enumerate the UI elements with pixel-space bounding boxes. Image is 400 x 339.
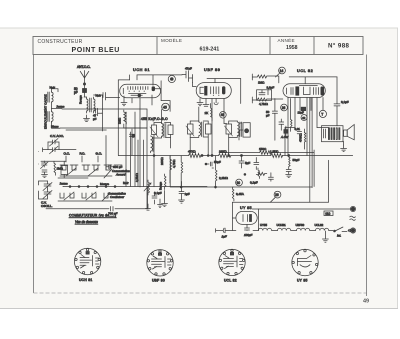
resistor 2.2M vertical [216,156,218,184]
svg-text:1K: 1K [205,111,209,115]
svg-text:0,1µF: 0,1µF [250,181,258,185]
switch bank oscillateur [58,192,112,201]
cadre coil 2 [48,111,53,122]
svg-text:1µF: 1µF [185,192,190,196]
vertical 290.6 resistor [291,99,292,132]
svg-text:50pF: 50pF [214,160,221,164]
svg-text:Vue de dessous: Vue de dessous [75,220,98,224]
tube UCH81 envelope [120,84,161,97]
socket UBF80 [147,250,173,276]
resistor 470k vertical [304,129,305,149]
svg-text:Accord: Accord [115,173,126,177]
cluster caps bottom left of mid [146,191,163,210]
MF2 transformer [186,107,211,156]
wire antenna cap to tube1 [102,93,120,101]
svg-text:49: 49 [363,299,369,305]
circle 42 [301,115,307,121]
svg-text:UCH81: UCH81 [277,223,287,227]
svg-text:UY 85: UY 85 [240,206,252,210]
svg-text:Oscillateur: Oscillateur [110,195,125,199]
tube UBF89 envelope [196,83,231,99]
svg-text:UBF 80: UBF 80 [152,279,165,283]
output transformer [322,126,344,142]
resistor 20k vertical [170,156,172,183]
svg-text:UCH 81: UCH 81 [133,68,150,72]
wire jaune to box [62,108,147,110]
mid cluster trimmer [41,161,49,169]
mid cluster cap [42,170,47,175]
svg-text:2,2MΩ: 2,2MΩ [219,176,229,180]
box around UCH81 [118,80,129,156]
cap 281 [279,119,284,130]
resistor on rail 3 [271,154,283,158]
oscillator rail [58,177,88,179]
wire antenna right [94,95,103,131]
voltage box 110 [324,211,333,216]
uy85 left wire [232,202,236,230]
resistor below UCH81 [118,110,127,128]
bottom commutateur wire with 700pF [46,187,148,209]
svg-text:5µF: 5µF [245,161,250,165]
svg-text:Jaune: Jaune [60,182,69,186]
svg-text:455 Kc|P.O-G.O: 455 Kc|P.O-G.O [141,117,168,121]
svg-text:Jaune: Jaune [56,105,65,109]
svg-text:14: 14 [280,69,284,73]
resistor on rail 2 [219,154,232,158]
svg-text:UCL82: UCL82 [315,223,324,227]
circle 46 [220,112,227,119]
svg-text:3,9pF: 3,9pF [267,86,275,90]
tube UCL82 envelope [283,84,325,98]
dark trimmer square [284,130,288,134]
svg-text:OSCILL.: OSCILL. [41,204,53,208]
svg-text:T: T [321,112,323,116]
svg-text:N° 988: N° 988 [328,43,350,50]
rail 188 [232,186,234,188]
svg-text:0,01: 0,01 [295,127,301,131]
resistor row right of UBF89 [252,74,278,85]
circle 26a [281,104,288,111]
dual vertical long [310,98,312,203]
test point circle top [168,75,175,82]
terminal 2 [351,229,354,232]
svg-text:ANT.O.C.: ANT.O.C. [77,65,91,69]
circle 14 [279,67,286,74]
cap 1uF 450 [179,192,184,194]
ground under resistor2 [162,204,168,207]
svg-text:1MΩ: 1MΩ [258,81,265,85]
svg-text:1MΩ: 1MΩ [57,167,64,171]
antenna coupling coil [84,97,95,118]
svg-text:A.Ouf: A.Ouf [280,135,289,139]
cap top 47pF [182,71,193,82]
svg-text:P.O.: P.O. [80,152,86,156]
vertical 314 [313,150,315,187]
box under UBF89 [207,79,241,104]
svg-text:pF: pF [93,117,97,121]
resistor row 2 right of UBF89 [252,97,282,106]
dots and caps near output [244,174,246,176]
cadre wires [52,89,59,92]
mid rail 2 [62,186,64,188]
svg-text:150Ω: 150Ω [259,147,267,151]
bottom wire with cap 1uF [216,228,233,233]
svg-text:UCL 82: UCL 82 [297,69,313,73]
svg-text:ENROULEMENT CADRE: ENROULEMENT CADRE [43,94,47,129]
circle 101 [236,179,243,186]
svg-text:G.O.: G.O. [96,152,103,156]
resistor 470 vertical [258,168,260,179]
svg-text:0,1µF: 0,1µF [154,191,162,195]
CV OSCILL trimmers [39,181,53,199]
phono box with dot [243,123,250,137]
top rail to UCL82 [289,77,337,84]
cap x132 [129,129,134,156]
svg-text:Rouge: Rouge [79,95,83,104]
rail 209 to terminal [252,208,351,210]
svg-text:C.V. ACC.: C.V. ACC. [50,134,64,138]
harness verticals [126,112,144,187]
box vertical tube1 top [129,75,131,80]
node dots extra [153,155,155,157]
vertical 215 to rail [215,187,217,189]
svg-text:20KΩ: 20KΩ [160,157,164,165]
svg-text:POINT BLEU: POINT BLEU [72,47,120,54]
svg-text:MODÈLE: MODÈLE [161,37,182,43]
node dots rail1 [201,155,203,157]
vertical 274.9 with cap [272,99,277,141]
svg-text:22KΩ: 22KΩ [219,150,227,154]
oscillator coil [151,136,153,153]
page bottom edge [0,308,398,310]
cap 47pF to ground [94,108,103,116]
svg-text:Blanc: Blanc [51,124,59,128]
socket UCL82 [219,249,245,275]
svg-text:47KΩ: 47KΩ [188,150,196,154]
mid cluster box [61,166,68,175]
svg-text:10: 10 [237,181,241,185]
svg-text:1MΩ: 1MΩ [118,117,122,124]
MF1 transformer [150,110,173,187]
svg-text:UCH 81: UCH 81 [79,278,93,282]
contacts row 2 [69,186,116,188]
band stubs [66,156,98,162]
svg-text:12pF: 12pF [298,111,305,115]
circle 14 leader [276,73,280,77]
tube UBF89 pins and grounds [197,99,203,106]
circle 45 [162,103,170,111]
tube UCH81 cathode ground [121,96,127,106]
volume pot [135,172,151,195]
cap box 3900pF [257,86,275,101]
heater loop left vertical [257,209,259,231]
resistor 0.45A vertical [232,187,234,201]
resistor 2 right of pot [165,174,167,190]
svg-text:0,5MΩ: 0,5MΩ [135,172,139,182]
svg-text:pF: pF [266,113,270,117]
mid cluster resistor 1M [54,161,56,175]
svg-text:UBF 89: UBF 89 [204,68,220,72]
svg-text:UY 85: UY 85 [297,279,308,283]
svg-text:UCL 82: UCL 82 [224,279,237,283]
ground antenna coil [84,118,90,122]
svg-text:47pF: 47pF [185,67,192,71]
switch bank accord [60,136,122,179]
resistor 4.7k vertical [181,156,183,187]
ground speaker [341,145,347,152]
CV ACC trimmers [43,139,77,154]
antenna ANT O.C. [80,71,89,98]
svg-text:Rouge: Rouge [159,181,163,190]
svg-text:UBF80: UBF80 [296,223,305,227]
ground heater [322,231,328,242]
cap 50pF mid [205,162,214,168]
wires misc verticals middle [102,109,147,209]
MF3 transformer [225,121,242,156]
speaker cap [334,77,343,106]
svg-text:Mauve: Mauve [100,182,109,186]
mid cluster ground [42,175,48,178]
svg-text:Noir: Noir [96,94,102,98]
cap below uy85 [245,224,250,230]
svg-text:1µF: 1µF [222,235,227,239]
tube UCH81 pins [132,95,152,123]
svg-text:0,45A: 0,45A [236,192,244,196]
svg-text:ANNÉE: ANNÉE [278,37,295,43]
svg-text:110: 110 [325,212,330,216]
cadre coil 1 [48,92,53,103]
wire blanc long [60,127,147,129]
schematic frame [34,55,367,297]
svg-text:0,1µF: 0,1µF [341,100,349,104]
cadre box top [66,129,106,131]
upper B+ line [220,152,314,154]
svg-text:4,7MΩ: 4,7MΩ [259,102,269,106]
resistor on rail 1 [189,154,202,158]
svg-text:pF: pF [74,90,78,94]
svg-text:100µF: 100µF [244,233,252,237]
terminal 1 [351,207,354,210]
tilde [350,216,356,220]
main HT rail [118,155,352,157]
header table [33,37,363,55]
socket UY85 [292,249,318,275]
wire cap47 to tube2 [193,83,197,87]
circle 26 [274,191,281,198]
resistor 1K under UBF89 [211,104,213,122]
svg-text:1958: 1958 [286,45,298,51]
heater chain [253,228,333,230]
left vertical frame wires [38,152,40,165]
cap 5uF [239,156,244,169]
cap 299 [297,132,301,134]
circle T [319,110,326,117]
svg-text:CONSTRUCTEUR: CONSTRUCTEUR [38,39,83,45]
svg-text:UY85: UY85 [260,223,267,227]
svg-text:26: 26 [275,193,279,197]
svg-text:4,7KΩ: 4,7KΩ [172,159,176,168]
svg-text:Noir: Noir [50,85,56,89]
svg-text:Int.: Int. [337,234,341,238]
UCL82 pins [288,98,323,156]
cap 0.1 [254,158,259,170]
socket UCH81 [74,248,100,274]
svg-text:45: 45 [163,106,167,110]
svg-text:619-241: 619-241 [200,47,220,53]
vertical line left mid [180,155,182,157]
svg-text:50µF: 50µF [293,158,300,162]
rail 202 [232,160,328,202]
svg-text:COMMUTATEUR (vu de.....): COMMUTATEUR (vu de.....) [69,214,116,218]
mid cluster left: wire [41,160,66,162]
svg-text:42: 42 [302,116,306,120]
tube UY85 envelope [236,211,257,224]
svg-text:470KΩ: 470KΩ [299,133,303,142]
grid stopper dark [301,107,305,110]
speaker [343,125,354,146]
svg-text:26: 26 [282,106,286,110]
switch int [335,227,351,232]
svg-text:O.C.: O.C. [64,152,71,156]
